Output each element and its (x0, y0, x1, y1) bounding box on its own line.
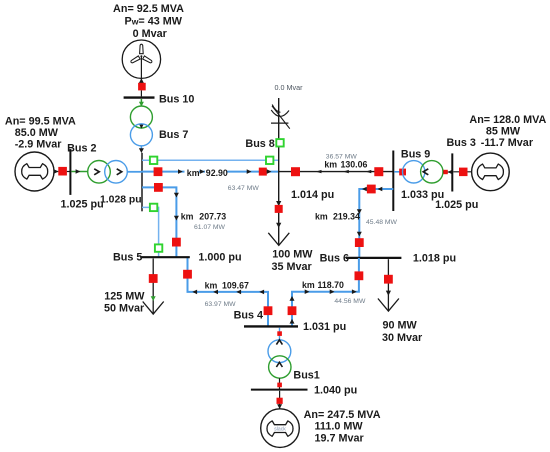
svg-text:125 MW: 125 MW (104, 290, 145, 302)
svg-text:100 MW: 100 MW (272, 248, 313, 260)
svg-text:1.040 pu: 1.040 pu (314, 384, 357, 396)
svg-text:61.07 MW: 61.07 MW (194, 224, 226, 231)
svg-text:44.56 MW: 44.56 MW (334, 298, 366, 305)
svg-text:109.67: 109.67 (222, 280, 249, 290)
svg-text:45.48 MW: 45.48 MW (366, 219, 398, 226)
svg-text:30 Mvar: 30 Mvar (382, 332, 423, 344)
svg-text:km: km (205, 280, 218, 290)
svg-text:km: km (315, 212, 328, 222)
svg-text:An= 247.5 MVA: An= 247.5 MVA (304, 409, 381, 421)
svg-text:Bus 3: Bus 3 (447, 137, 476, 149)
svg-text:km: km (324, 159, 337, 169)
svg-text:km: km (302, 280, 315, 290)
svg-text:Bus 8: Bus 8 (245, 138, 274, 150)
svg-text:1.025 pu: 1.025 pu (61, 199, 104, 211)
svg-text:km: km (181, 211, 194, 221)
svg-text:1.014 pu: 1.014 pu (291, 189, 334, 201)
svg-text:0.0 Mvar: 0.0 Mvar (275, 83, 304, 92)
svg-text:85.0 MW: 85.0 MW (15, 127, 59, 139)
svg-text:130.06: 130.06 (341, 159, 368, 169)
svg-text:Bus 5: Bus 5 (113, 252, 142, 264)
svg-text:1.000 pu: 1.000 pu (198, 252, 241, 264)
svg-text:An= 99.5 MVA: An= 99.5 MVA (5, 115, 76, 127)
svg-text:35 Mvar: 35 Mvar (272, 261, 313, 273)
svg-text:111.0 MW: 111.0 MW (315, 421, 364, 433)
svg-text:Bus 9: Bus 9 (401, 149, 430, 161)
svg-text:118.70: 118.70 (318, 280, 345, 290)
svg-text:An= 92.5 MVA: An= 92.5 MVA (113, 3, 184, 15)
svg-text:Bus 7: Bus 7 (159, 129, 188, 141)
svg-text:Bus 10: Bus 10 (159, 93, 194, 105)
svg-text:63.47 MW: 63.47 MW (228, 185, 260, 192)
svg-text:1.025 pu: 1.025 pu (435, 199, 478, 211)
svg-text:1.031 pu: 1.031 pu (303, 321, 346, 333)
svg-text:An= 128.0 MVA: An= 128.0 MVA (469, 114, 546, 126)
svg-text:1.018 pu: 1.018 pu (413, 253, 456, 265)
svg-text:0 Mvar: 0 Mvar (133, 28, 168, 40)
svg-text:Bus 6: Bus 6 (320, 252, 349, 264)
svg-text:Bus1: Bus1 (293, 370, 319, 382)
svg-text:Bus 4: Bus 4 (234, 310, 263, 322)
svg-text:-2.9 Mvar: -2.9 Mvar (15, 139, 63, 151)
svg-text:1.028 pu: 1.028 pu (100, 195, 142, 206)
svg-text:50 Mvar: 50 Mvar (104, 303, 145, 315)
svg-text:Pw= 43 MW: Pw= 43 MW (125, 16, 183, 28)
svg-text:90 MW: 90 MW (383, 319, 418, 331)
svg-text:19.7 Mvar: 19.7 Mvar (315, 432, 365, 444)
svg-text:207.73: 207.73 (199, 211, 226, 221)
svg-text:slack: slack (274, 426, 286, 432)
svg-text:-11.7 Mvar: -11.7 Mvar (481, 137, 534, 149)
svg-text:92.90: 92.90 (206, 168, 228, 178)
svg-text:219.34: 219.34 (333, 212, 360, 222)
svg-text:Bus 2: Bus 2 (67, 143, 96, 155)
svg-text:85 MW: 85 MW (486, 126, 521, 138)
svg-text:km: km (187, 168, 200, 178)
svg-text:63.97 MW: 63.97 MW (205, 301, 237, 308)
